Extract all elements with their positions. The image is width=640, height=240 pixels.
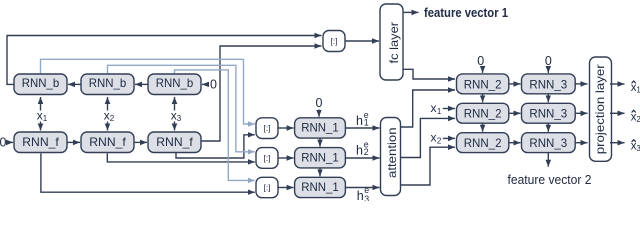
wire: projection layer to xhat1 (610, 83, 625, 85)
wire: RNN_b3 to RNN_b2 (135, 83, 148, 85)
wire: RNN_f3 bottom output to concat row1 (176, 135, 255, 158)
label h2e (356, 140, 369, 158)
wire: RNN_2 row3 to RNN_3 row3 (509, 142, 521, 144)
svg-text:2: 2 (364, 147, 369, 157)
block RNN_b2 (81, 74, 134, 95)
svg-text:RNN_1: RNN_1 (301, 121, 339, 135)
svg-text:h: h (356, 143, 363, 157)
wire: RNN_3 row2 to projection layer (575, 112, 587, 114)
svg-text:2: 2 (636, 115, 640, 124)
svg-text:1: 1 (364, 117, 369, 127)
label 0 input of RNN_3 row1 (545, 54, 552, 73)
svg-text:1: 1 (43, 114, 48, 123)
svg-text:3: 3 (364, 194, 369, 201)
wire: RNN_1 row1 to row2 (319, 138, 321, 146)
svg-text:feature vector 2: feature vector 2 (508, 172, 592, 187)
svg-text:RNN_1: RNN_1 (301, 180, 339, 194)
svg-text:RNN_2: RNN_2 (464, 77, 502, 91)
wire: RNN_1 row1 to attention (345, 127, 379, 129)
label xhat2 (631, 110, 640, 124)
wire: RNN_3 row1 to projection layer (575, 83, 587, 85)
svg-text:2: 2 (437, 137, 442, 146)
svg-text:fc layer: fc layer (387, 22, 401, 64)
wire: RNN_b2 to RNN_b1 (68, 83, 81, 85)
block RNN_f3 (148, 132, 201, 153)
concat row1 (256, 118, 278, 139)
block projection layer (590, 57, 612, 161)
concat top (323, 31, 345, 52)
block RNN_f2 (81, 132, 134, 153)
svg-text:x: x (431, 131, 437, 145)
svg-text:RNN_3: RNN_3 (529, 136, 567, 150)
wire: projection layer to xhat3 (610, 142, 625, 144)
block RNN_2 row1 (457, 74, 509, 94)
label 0 input of RNN_1 row1 (316, 96, 323, 117)
svg-text:RNN_b: RNN_b (22, 76, 60, 90)
svg-text:0: 0 (210, 78, 217, 92)
label x2 decoder input (431, 131, 456, 146)
svg-text:feature vector 1: feature vector 1 (424, 5, 508, 20)
block RNN_2 row3 (457, 133, 509, 153)
svg-text:projection layer: projection layer (593, 64, 607, 154)
svg-text:3: 3 (177, 114, 182, 123)
wire: RNN_3 row1 to row2 (547, 94, 549, 103)
wire: attention to RNN_2 row1 (401, 90, 456, 127)
svg-text:[:]: [:] (263, 153, 270, 163)
wire: RNN_b2 hidden state (blue) to concat row2 (108, 65, 255, 152)
svg-text:1: 1 (437, 107, 442, 116)
label x2 with arrows (104, 97, 115, 131)
svg-text:RNN_b: RNN_b (156, 76, 194, 90)
concat row2 (256, 148, 278, 169)
svg-text:0: 0 (316, 96, 323, 110)
svg-text:h: h (357, 189, 364, 201)
block RNN_b3 (148, 74, 201, 95)
block RNN_1 row1 (295, 118, 346, 138)
wire: concat row3 to RNN_1 row3 (278, 187, 294, 189)
wire: RNN_f2 to RNN_f3 (134, 141, 147, 143)
svg-text:attention: attention (385, 127, 399, 178)
wire: attention to RNN_2 row2 (401, 118, 456, 157)
svg-text:RNN_f: RNN_f (22, 135, 59, 149)
block RNN_f1 (14, 132, 67, 153)
wire: RNN_f1 bottom output to concat row3 (41, 153, 255, 192)
block RNN_3 row2 (522, 103, 576, 123)
label 0 input of RNN_b3 (202, 78, 217, 92)
label x1 with arrows (37, 97, 48, 131)
wire: RNN_1 row2 to attention (345, 157, 379, 159)
block fc layer (380, 4, 403, 80)
wire: RNN_2 row1 to RNN_3 row1 (509, 83, 521, 85)
svg-text:h: h (356, 114, 363, 128)
wire: RNN_f1 to RNN_f2 (67, 141, 80, 143)
block attention (381, 118, 401, 196)
block RNN_3 row1 (522, 74, 576, 94)
wire: RNN_3 row3 to feature vector 2 (547, 153, 549, 167)
label h1e (356, 110, 369, 128)
wire: RNN_b1 output to top concat (7, 36, 322, 85)
wire: projection layer to xhat2 (610, 112, 625, 114)
wire: RNN_2 row2 to RNN_3 row2 (509, 112, 521, 114)
svg-text:2: 2 (110, 114, 115, 123)
block RNN_b1 (14, 74, 67, 95)
wire: RNN_f2 bottom output to concat row2 (107, 153, 255, 162)
wire: attention to RNN_2 row3 (401, 147, 456, 185)
svg-text:RNN_b: RNN_b (89, 76, 127, 90)
block RNN_3 row3 (522, 133, 576, 153)
label x1 decoder input (431, 101, 456, 116)
wire: concat top to fc layer (345, 40, 379, 42)
svg-text:0: 0 (545, 54, 552, 68)
svg-text:[:]: [:] (263, 183, 270, 193)
wire: RNN_2 row1 to row2 (482, 94, 484, 103)
block RNN_1 row2 (295, 148, 346, 168)
wire: RNN_2 row2 to row3 (482, 123, 484, 132)
block RNN_2 row2 (457, 103, 509, 123)
label xhat3 (631, 140, 640, 154)
concat row3 (256, 177, 278, 197)
svg-text:RNN_f: RNN_f (89, 135, 126, 149)
svg-text:0: 0 (477, 54, 484, 68)
wire: RNN_1 row3 to attention (345, 187, 379, 189)
svg-text:RNN_2: RNN_2 (464, 136, 502, 150)
wire: RNN_1 row2 to row3 (319, 168, 321, 176)
wire: RNN_3 row3 to projection layer (575, 142, 587, 144)
label h3e (357, 185, 370, 204)
label x3 with arrows (171, 97, 182, 131)
svg-text:RNN_2: RNN_2 (464, 107, 502, 121)
wire: concat row1 to RNN_1 row1 (278, 127, 294, 129)
wire: fc layer to RNN_2 row1 (403, 69, 455, 79)
label xhat1 (631, 81, 640, 95)
svg-text:0: 0 (0, 136, 7, 150)
svg-text:[:]: [:] (330, 36, 337, 46)
svg-text:x: x (431, 101, 437, 115)
wire: RNN_f3 right output up to top concat (201, 46, 322, 141)
svg-text:RNN_f: RNN_f (156, 135, 193, 149)
wire: RNN_b1 hidden state (blue) to concat row1 (41, 59, 255, 124)
label 0 input of RNN_2 row1 (477, 54, 484, 73)
svg-text:RNN_3: RNN_3 (529, 77, 567, 91)
svg-text:3: 3 (636, 144, 640, 153)
svg-text:[:]: [:] (263, 123, 270, 133)
label 0 input of RNN_f1 (0, 136, 13, 150)
wire: RNN_3 row2 to row3 (547, 123, 549, 132)
wire: fc layer to feature vector 1 (403, 11, 419, 13)
svg-text:1: 1 (636, 86, 640, 95)
svg-text:RNN_1: RNN_1 (301, 150, 339, 164)
wire: RNN_b3 hidden state (blue) to concat row3 (175, 70, 255, 180)
svg-text:RNN_3: RNN_3 (529, 107, 567, 121)
block RNN_1 row3 (295, 177, 346, 197)
wire: concat row2 to RNN_1 row2 (278, 157, 294, 159)
